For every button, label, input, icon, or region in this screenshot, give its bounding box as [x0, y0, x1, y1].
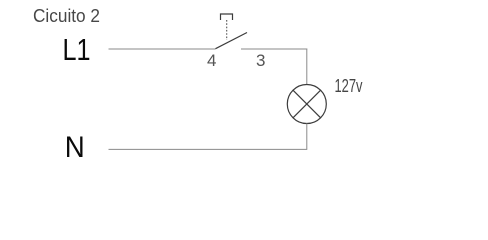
wire switch to corner [241, 48, 307, 50]
lamp H1 body [287, 85, 326, 124]
svg-text:Cicuito 2: Cicuito 2 [33, 6, 100, 26]
svg-text:N: N [65, 131, 85, 164]
svg-text:127v: 127v [335, 76, 363, 96]
wire corner down to lamp [306, 49, 308, 85]
svg-text:4: 4 [207, 51, 216, 70]
wire N rail [109, 148, 308, 150]
wire lamp to N rail [306, 124, 308, 150]
push-button actuator [221, 14, 233, 20]
switch S1 lever (contact 4-3) [216, 33, 248, 49]
svg-text:L1: L1 [63, 32, 91, 67]
mechanical link (dashed) [226, 20, 228, 40]
lamp H1 cross stroke 1 [293, 90, 321, 118]
svg-text:3: 3 [256, 51, 265, 70]
lamp H1 cross stroke 2 [293, 90, 321, 118]
wire L1 to switch [109, 48, 216, 50]
